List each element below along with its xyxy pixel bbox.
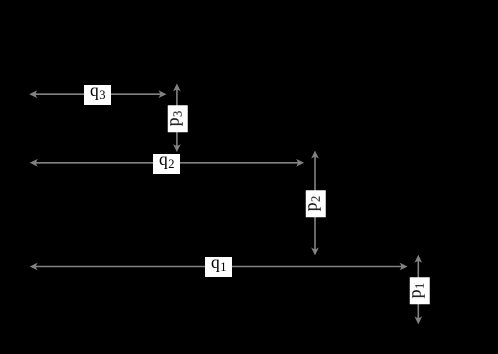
label p3 (rotated) [168,105,188,132]
label q2 [153,154,180,174]
label p1 (rotated) [409,277,429,304]
label p2 (rotated) [306,191,326,218]
arrow p3 (vertical double-headed dimension arrow) [174,84,180,151]
arrow p1 (vertical double-headed dimension arrow) [416,256,422,323]
arrow q2 (horizontal double-headed dimension arrow) [31,160,303,166]
label q3 [84,85,111,105]
arrow p2 (vertical double-headed dimension arrow) [312,152,318,255]
label q1 [205,257,232,277]
arrow q1 (horizontal double-headed dimension arrow) [31,264,407,270]
arrow q3 (horizontal double-headed dimension arrow) [30,91,165,97]
